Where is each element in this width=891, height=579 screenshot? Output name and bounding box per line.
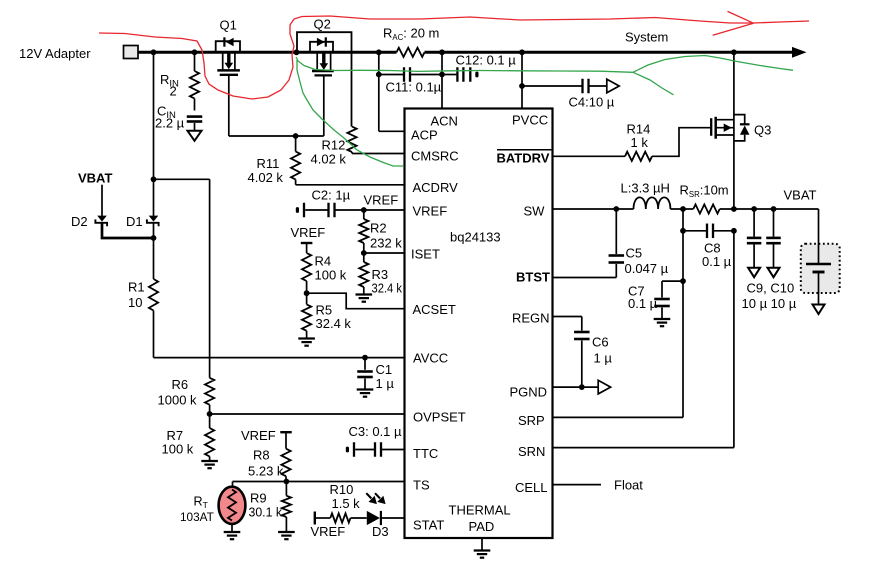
- node C10 junction: [771, 206, 777, 212]
- transistor Q1: [216, 41, 240, 52]
- svg-text:2.2 µ: 2.2 µ: [155, 116, 185, 131]
- system bus arrow: [792, 47, 807, 58]
- capacitor C6: [574, 331, 590, 334]
- svg-text:C12: 0.1 µ: C12: 0.1 µ: [456, 53, 517, 68]
- svg-text:32.4 k: 32.4 k: [316, 316, 352, 331]
- wire VREF pin: [364, 209, 405, 211]
- resistor R1: [149, 279, 158, 311]
- resistor RIN: [190, 71, 199, 99]
- wire C8 right: [713, 230, 734, 232]
- node SW junction: [613, 206, 619, 212]
- node RAC right: [439, 49, 445, 55]
- wire C7-gnd: [661, 308, 663, 319]
- ground battery (triangle): [813, 305, 825, 315]
- node RAC left: [376, 49, 382, 55]
- svg-text:4.02 k: 4.02 k: [248, 170, 284, 185]
- wire R9-gnd: [285, 517, 287, 532]
- svg-text:SRP: SRP: [518, 413, 545, 428]
- resistor R8: [281, 449, 290, 477]
- svg-text:R2: R2: [370, 221, 387, 236]
- wire C11 left: [379, 74, 403, 76]
- resistor R11: [291, 152, 300, 180]
- red annotation path: [99, 16, 809, 99]
- svg-text:103AT: 103AT: [180, 510, 214, 524]
- svg-text:1000 k: 1000 k: [158, 393, 198, 408]
- node Q2 source junction: [294, 49, 300, 55]
- svg-text:10: 10: [128, 295, 142, 310]
- wire RIN branch: [194, 52, 196, 71]
- wire PGND: [553, 386, 599, 388]
- battery pack: [801, 244, 840, 293]
- wire ACP: [378, 52, 380, 131]
- svg-text:R12: R12: [322, 138, 346, 153]
- node C7 junction: [680, 278, 686, 284]
- capacitor C10: [773, 209, 775, 237]
- svg-text:R10: R10: [330, 482, 354, 497]
- node RSR left: [680, 206, 686, 212]
- svg-text:CELL: CELL: [515, 480, 548, 495]
- wire R5-gnd: [306, 331, 308, 338]
- node RSR right: [731, 206, 737, 212]
- node gate junction: [293, 133, 299, 139]
- wire CELL: [553, 484, 602, 486]
- svg-text:THERMAL: THERMAL: [449, 503, 511, 518]
- op-amp U1 bq24133 IC body: [405, 109, 553, 539]
- resistor R7: [205, 428, 214, 457]
- capacitor C12: [456, 67, 458, 82]
- svg-text:Q1: Q1: [220, 18, 237, 33]
- inductor L 3.3uH: [634, 197, 671, 209]
- wire R10 left: [315, 517, 331, 519]
- wire C1-gnd: [364, 379, 366, 389]
- svg-text:ISET: ISET: [411, 247, 440, 262]
- node Q3 bus junction: [731, 49, 737, 55]
- wire R4-R5: [306, 281, 308, 304]
- D3 arrows: [366, 493, 371, 498]
- wire C8 left: [683, 230, 706, 232]
- ground R7: [201, 460, 218, 462]
- svg-text:TTC: TTC: [413, 446, 438, 461]
- node ISET junction: [361, 250, 367, 256]
- wire C4 right: [590, 85, 607, 87]
- capacitor C11: [403, 67, 405, 82]
- wire TS pin: [233, 481, 405, 483]
- wire PVCC: [521, 52, 523, 108]
- resistor R9: [282, 496, 291, 517]
- wire R8-TS: [285, 476, 287, 481]
- node C1 junction: [362, 355, 368, 361]
- svg-text:ACSET: ACSET: [413, 302, 456, 317]
- wire ISET pin: [364, 252, 405, 254]
- svg-text:VREF: VREF: [364, 193, 399, 208]
- svg-text:C4:10 µ: C4:10 µ: [569, 95, 615, 110]
- svg-text:VREF: VREF: [413, 204, 448, 219]
- green annotation fork: [633, 72, 674, 95]
- svg-text:C1: C1: [376, 362, 393, 377]
- wire CIN-gnd: [194, 123, 196, 131]
- svg-text:2: 2: [170, 84, 177, 99]
- ground R3: [356, 293, 373, 295]
- svg-text:C6: C6: [592, 335, 609, 350]
- svg-text:R6: R6: [172, 377, 189, 392]
- green annotation main path: [296, 56, 793, 73]
- wire SW-L: [616, 208, 633, 210]
- wire gate-R11: [295, 136, 297, 152]
- capacitor C7: [654, 298, 670, 301]
- wire VBAT-D2: [101, 185, 103, 216]
- resistor R4: [302, 253, 311, 281]
- svg-text:D1: D1: [126, 214, 143, 229]
- capacitor C8: [706, 224, 708, 239]
- svg-text:R4: R4: [315, 254, 332, 269]
- VREF terminal R4: [301, 242, 313, 244]
- svg-text:1 µ: 1 µ: [376, 376, 395, 391]
- svg-text:1 µ: 1 µ: [594, 351, 613, 366]
- wire R1 to AVCC: [153, 311, 155, 358]
- wire system bus: [138, 51, 397, 54]
- node C8 left: [680, 228, 686, 234]
- node C4 branch: [519, 83, 525, 89]
- svg-text:D2: D2: [71, 214, 88, 229]
- svg-text:C11: 0.1µ: C11: 0.1µ: [386, 80, 442, 95]
- wire TS-R9: [285, 482, 287, 496]
- LED D3: [367, 511, 380, 525]
- svg-text:BTST: BTST: [516, 270, 550, 285]
- svg-text:STAT: STAT: [413, 518, 444, 533]
- node RIN junction: [192, 49, 198, 55]
- node D1-D2 junction: [151, 235, 157, 241]
- svg-text:PVCC: PVCC: [512, 113, 548, 128]
- node adapter-D1 junction: [151, 49, 157, 55]
- svg-text:RSR:10m: RSR:10m: [680, 183, 729, 200]
- svg-text:Q2: Q2: [314, 17, 331, 32]
- svg-text:AVCC: AVCC: [413, 351, 448, 366]
- wire D2 to D1 node: [102, 223, 154, 238]
- C4 arrow: [607, 79, 619, 93]
- wire adapter to D1: [153, 52, 155, 216]
- resistor R6: [205, 378, 214, 405]
- adapter connector: [124, 46, 139, 59]
- wire R11-ACDRV: [295, 180, 297, 185]
- ground CIN (triangle): [188, 131, 202, 141]
- svg-text:12V Adapter: 12V Adapter: [19, 46, 91, 61]
- wire Q3 vertical: [733, 52, 735, 209]
- wire RT-gnd: [231, 524, 233, 532]
- ground R5: [298, 337, 315, 339]
- svg-text:100 k: 100 k: [315, 268, 347, 283]
- wire RSR-VBAT: [720, 208, 819, 210]
- wire REGN: [553, 316, 582, 318]
- wire R2-ISET: [363, 243, 365, 262]
- VREF terminal R10: [314, 512, 316, 525]
- svg-text:0.047 µ: 0.047 µ: [625, 261, 669, 276]
- svg-text:R8: R8: [253, 448, 270, 463]
- svg-text:RAC: 20 m: RAC: 20 m: [383, 26, 439, 43]
- diode D2: [97, 216, 107, 222]
- wire battery-gnd: [818, 272, 820, 305]
- battery cell: [806, 263, 831, 265]
- wire C4 left: [522, 85, 582, 87]
- thermistor RT: [219, 487, 246, 524]
- node TS junction: [284, 479, 290, 485]
- svg-text:30.1 k: 30.1 k: [249, 505, 283, 520]
- wire R10-D3: [351, 517, 367, 519]
- ground C1: [357, 388, 374, 390]
- svg-text:PGND: PGND: [510, 385, 548, 400]
- wire VBAT-battery: [818, 209, 820, 264]
- capacitor C5: [609, 254, 625, 257]
- transistor Q3: [710, 118, 712, 136]
- node C9 junction: [751, 206, 757, 212]
- wire gate line: [229, 135, 324, 137]
- svg-text:SRN: SRN: [518, 444, 545, 459]
- wire VREF-R2: [363, 210, 365, 219]
- svg-text:100 k: 100 k: [162, 442, 194, 457]
- svg-text:ACN: ACN: [431, 114, 458, 129]
- wire SRN: [733, 231, 735, 448]
- wire R7-gnd: [209, 457, 211, 461]
- capacitor C1: [357, 370, 373, 373]
- svg-text:VREF: VREF: [311, 524, 346, 539]
- svg-text:L:3.3 µH: L:3.3 µH: [621, 181, 670, 196]
- ground C10 (triangle): [768, 268, 780, 278]
- wire SW pin: [553, 208, 617, 210]
- transistor Q2: [297, 32, 352, 126]
- svg-text:1 k: 1 k: [631, 135, 649, 150]
- wire ACSET: [307, 293, 405, 309]
- wire C7 branch: [662, 280, 683, 282]
- svg-text:0.1 µ: 0.1 µ: [628, 296, 658, 311]
- svg-text:D3: D3: [372, 524, 389, 539]
- svg-text:Q3: Q3: [754, 123, 771, 138]
- wire L-RSR: [670, 208, 693, 210]
- wire RIN-CIN: [194, 99, 196, 111]
- wire to OVP divider: [154, 178, 210, 180]
- wire ACN: [441, 52, 443, 108]
- svg-text:ACP: ACP: [411, 128, 438, 143]
- svg-text:BATDRV: BATDRV: [497, 151, 550, 166]
- resistor R10: [330, 513, 350, 522]
- resistor RAC: [397, 48, 425, 57]
- resistor R3: [359, 262, 368, 287]
- resistor R12: [347, 127, 356, 152]
- svg-text:R9: R9: [250, 491, 267, 506]
- svg-text:OVPSET: OVPSET: [413, 410, 466, 425]
- svg-text:232 k: 232 k: [370, 236, 402, 251]
- green annotation branch: [297, 60, 403, 166]
- svg-text:0.1 µ: 0.1 µ: [702, 254, 732, 269]
- svg-text:32.4 k: 32.4 k: [372, 281, 403, 296]
- wire OVPSET pin: [210, 413, 405, 415]
- svg-text:10 µ 10 µ: 10 µ 10 µ: [742, 296, 797, 311]
- wire SRP: [682, 281, 684, 417]
- svg-text:CMSRC: CMSRC: [411, 149, 459, 164]
- thermal pad ground: [481, 538, 483, 550]
- svg-text:C2: 1µ: C2: 1µ: [312, 188, 351, 203]
- node AVCC-OVP branch: [151, 176, 157, 182]
- wire R6-OVPSET: [209, 405, 211, 428]
- red annotation arrowhead: [713, 11, 754, 35]
- wire C12 left: [442, 74, 456, 76]
- resistor R14: [625, 152, 652, 161]
- capacitor C3: [353, 442, 355, 457]
- ground RT: [224, 531, 241, 533]
- svg-text:bq24133: bq24133: [450, 230, 501, 245]
- wire C5 stub: [615, 209, 617, 254]
- capacitor C2: [303, 203, 305, 218]
- ground C9 (triangle): [748, 268, 760, 278]
- svg-text:VBAT: VBAT: [78, 171, 112, 186]
- svg-text:PAD: PAD: [469, 519, 495, 534]
- svg-text:C3: 0.1 µ: C3: 0.1 µ: [349, 424, 403, 439]
- svg-text:R11: R11: [257, 156, 280, 171]
- node PVCC junction: [519, 49, 525, 55]
- resistor R2: [359, 219, 368, 243]
- node C11 left: [376, 72, 382, 78]
- wire R3-gnd: [363, 287, 365, 294]
- svg-text:REGN: REGN: [512, 311, 550, 326]
- svg-text:VREF: VREF: [241, 428, 276, 443]
- svg-text:TS: TS: [413, 478, 430, 493]
- capacitor C4: [581, 79, 583, 94]
- capacitor C9: [753, 209, 755, 237]
- svg-text:C5: C5: [626, 246, 643, 261]
- wire BATDRV: [553, 155, 626, 157]
- node VREF junction: [361, 207, 367, 213]
- node OVPSET junction: [207, 411, 213, 417]
- svg-text:VREF: VREF: [291, 225, 326, 240]
- ground C7: [654, 318, 671, 320]
- svg-text:C9, C10: C9, C10: [747, 281, 795, 296]
- wire D3-STAT: [382, 517, 405, 519]
- VREF terminal R8: [280, 431, 291, 433]
- node ACN junction: [439, 72, 445, 78]
- resistor RSR: [693, 204, 719, 213]
- svg-text:ACDRV: ACDRV: [413, 180, 459, 195]
- svg-text:SW: SW: [524, 204, 546, 219]
- svg-text:VBAT: VBAT: [784, 188, 817, 203]
- ground R9: [278, 531, 295, 533]
- svg-text:System: System: [625, 30, 668, 45]
- wire C6-PGND: [581, 341, 583, 388]
- resistor R5: [302, 304, 311, 330]
- wire C1 stub: [364, 358, 366, 370]
- svg-text:1.5 k: 1.5 k: [332, 496, 361, 511]
- node PGND junction: [579, 384, 585, 390]
- wire R12-CMSRC: [351, 152, 353, 154]
- svg-text:4.02 k: 4.02 k: [311, 152, 347, 167]
- wire C11-ACN: [411, 74, 442, 76]
- svg-text:Float: Float: [614, 478, 643, 493]
- wire R14-Q3gate: [652, 128, 710, 157]
- svg-text:R1: R1: [128, 280, 145, 295]
- node R4-R5 junction: [304, 290, 310, 296]
- wire TS-RT: [232, 482, 234, 490]
- wire C5-BTST: [615, 264, 617, 278]
- PGND arrow: [598, 380, 610, 394]
- node C8 right: [731, 228, 737, 234]
- svg-text:5.23 k: 5.23 k: [248, 464, 284, 479]
- diode D1: [149, 216, 159, 222]
- capacitor CIN: [187, 115, 203, 118]
- wire SW-C8: [682, 209, 684, 281]
